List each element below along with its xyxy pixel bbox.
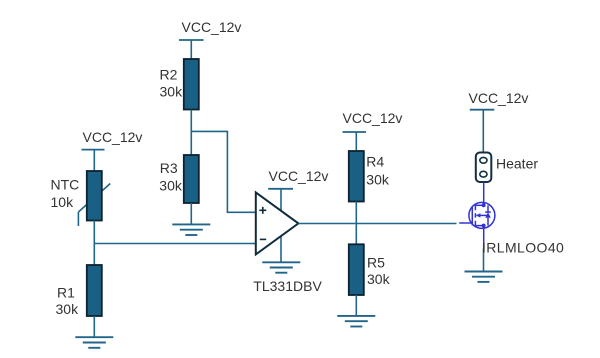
resistor R1 <box>56 265 102 317</box>
svg-text:10k: 10k <box>51 194 75 210</box>
wire VCC to heater <box>482 110 484 153</box>
resistor R5 <box>349 244 391 295</box>
ground (below R1) <box>75 337 113 348</box>
wire op-amp output <box>298 223 456 225</box>
op-amp U1 TL331DBV <box>253 192 322 293</box>
svg-text:NTC: NTC <box>51 176 80 192</box>
svg-text:VCC_12v: VCC_12v <box>182 19 242 35</box>
wire R2/R3 junction to op-amp + input <box>191 131 256 212</box>
svg-text:30k: 30k <box>366 172 390 188</box>
ground (op-amp) <box>262 262 300 272</box>
power VCC_12v (heater branch) <box>469 90 529 110</box>
svg-text:TL331DBV: TL331DBV <box>253 278 322 294</box>
svg-text:VCC_12v: VCC_12v <box>343 110 403 126</box>
power VCC_12v (R4 branch) <box>343 110 403 132</box>
svg-text:R4: R4 <box>366 154 384 170</box>
wire VCC to R4 <box>355 132 357 151</box>
wire R2 to R3 <box>190 110 192 156</box>
wire mosfet source to ground <box>483 249 485 272</box>
resistor R2 <box>160 59 199 110</box>
wire VCC to NTC <box>93 150 95 171</box>
wire R4 to R5 <box>355 202 357 245</box>
wire NTC to R1 <box>93 221 95 266</box>
svg-text:Heater: Heater <box>496 156 538 172</box>
svg-text:R3: R3 <box>160 160 178 176</box>
power VCC_12v (NTC branch) <box>82 129 143 150</box>
svg-text:R2: R2 <box>160 66 178 82</box>
heater (2-pin connector) <box>476 153 539 183</box>
power VCC_12v (op-amp supply) <box>268 168 328 189</box>
svg-text:R5: R5 <box>367 255 385 271</box>
power VCC_12v (R2 branch) <box>179 19 241 40</box>
thermistor NTC 10k <box>51 171 111 226</box>
wire VCC to R2 <box>190 40 192 59</box>
wire R3 to ground <box>190 203 192 224</box>
wire VCC to op-amp <box>280 189 282 211</box>
svg-text:30k: 30k <box>160 83 184 99</box>
svg-text:30k: 30k <box>56 301 80 317</box>
svg-text:VCC_12v: VCC_12v <box>269 168 329 184</box>
svg-text:VCC_12v: VCC_12v <box>469 90 529 106</box>
wire R5 to ground <box>355 295 357 316</box>
wire R1 to ground <box>93 316 95 337</box>
ground (below R5) <box>337 316 375 327</box>
svg-text:30k: 30k <box>367 271 391 287</box>
svg-text:30k: 30k <box>159 178 183 194</box>
resistor R3 <box>159 155 199 203</box>
svg-text:VCC_12v: VCC_12v <box>83 129 143 145</box>
wire op-amp to ground <box>280 237 282 263</box>
ground (below R3) <box>172 224 210 235</box>
wire NTC/R1 junction to op-amp - input <box>94 243 256 245</box>
svg-text:IRLMLOO40: IRLMLOO40 <box>482 239 564 255</box>
ground (below mosfet) <box>465 272 503 282</box>
resistor R4 <box>349 151 390 202</box>
svg-text:R1: R1 <box>57 285 75 301</box>
transistor Q1 IRLMLOO40 (n-mosfet) <box>459 182 495 249</box>
